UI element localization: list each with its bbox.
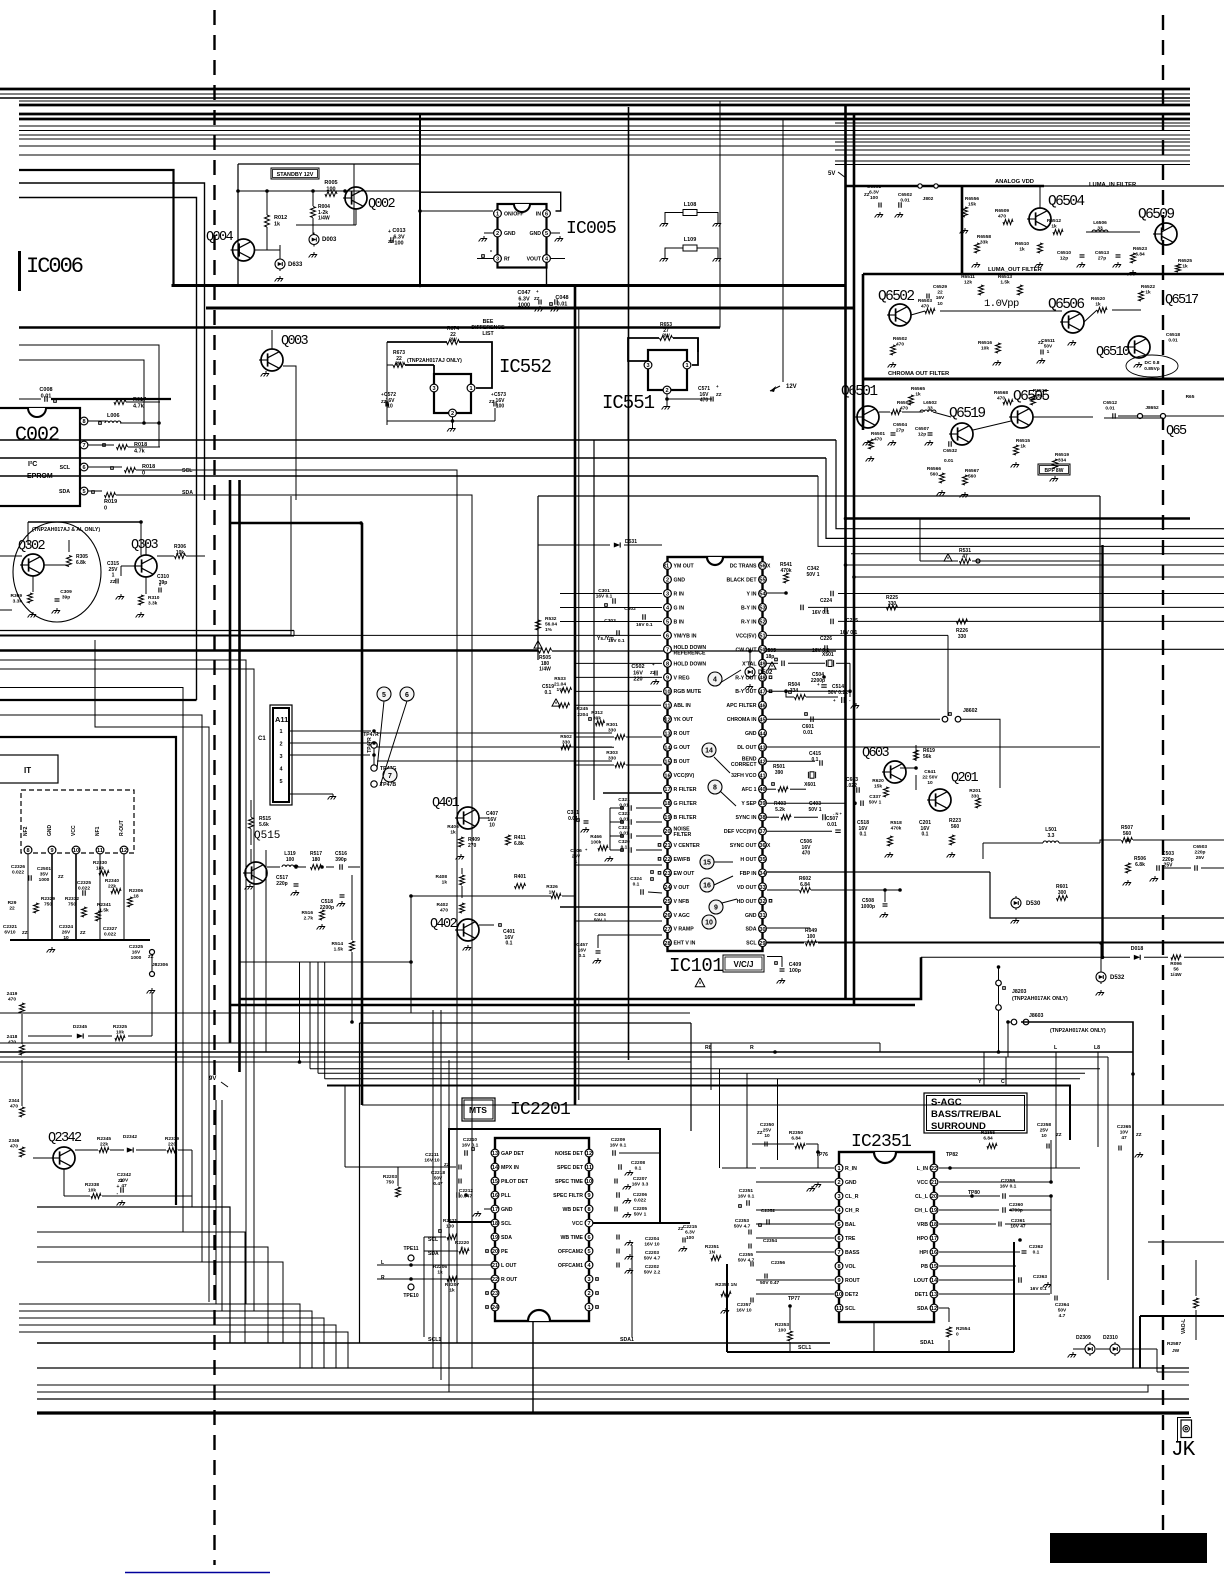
svg-text:470: 470 xyxy=(874,437,882,443)
svg-text:8: 8 xyxy=(82,419,85,425)
svg-text:1N: 1N xyxy=(709,1250,716,1256)
svg-text:6.3V: 6.3V xyxy=(685,1230,696,1236)
svg-text:C2324: C2324 xyxy=(59,924,73,930)
svg-text:25V: 25V xyxy=(763,1128,772,1134)
svg-text:14: 14 xyxy=(705,748,713,755)
svg-text:D2342: D2342 xyxy=(123,1134,137,1140)
svg-text:R6512: R6512 xyxy=(1047,218,1061,224)
svg-text:R2340: R2340 xyxy=(105,878,119,884)
svg-text:R6565: R6565 xyxy=(911,386,925,392)
svg-text:46: 46 xyxy=(759,703,765,709)
svg-text:DC TRANS: DC TRANS xyxy=(730,564,757,570)
svg-text:12V: 12V xyxy=(786,384,797,390)
svg-text:36: 36 xyxy=(759,843,765,849)
svg-text:HPI: HPI xyxy=(919,1250,928,1256)
svg-text:1000: 1000 xyxy=(131,955,142,961)
svg-text:(TNP2AH017AK ONLY): (TNP2AH017AK ONLY) xyxy=(1012,996,1068,1002)
svg-text:11: 11 xyxy=(836,1306,842,1312)
svg-text:R_IN: R_IN xyxy=(845,1166,857,1172)
svg-text:1: 1 xyxy=(666,564,669,570)
svg-text:54: 54 xyxy=(759,592,766,598)
svg-text:Q6504: Q6504 xyxy=(1048,194,1084,210)
svg-text:2: 2 xyxy=(279,742,282,748)
svg-text:20: 20 xyxy=(492,1249,498,1255)
svg-text:24: 24 xyxy=(664,885,671,891)
svg-text:39p: 39p xyxy=(62,595,70,601)
svg-text:TP80: TP80 xyxy=(968,1190,980,1196)
svg-text:R312: R312 xyxy=(591,710,603,716)
svg-text:ZZ: ZZ xyxy=(58,874,64,879)
svg-text:Q402: Q402 xyxy=(430,917,458,932)
svg-text:R FILTER: R FILTER xyxy=(674,787,697,793)
svg-text:470: 470 xyxy=(440,908,448,914)
svg-text:6: 6 xyxy=(587,1235,590,1241)
svg-text:Y: Y xyxy=(978,1079,982,1085)
svg-text:16V 0.1: 16V 0.1 xyxy=(462,1143,479,1149)
svg-text:DC 0.8: DC 0.8 xyxy=(1145,360,1160,366)
svg-text:16V: 16V xyxy=(132,950,141,956)
svg-text:2: 2 xyxy=(451,411,454,417)
svg-text:20: 20 xyxy=(931,1194,937,1200)
svg-text:470k: 470k xyxy=(891,826,902,832)
svg-text:Q515: Q515 xyxy=(254,830,280,842)
svg-text:R OUT: R OUT xyxy=(501,1277,518,1283)
svg-text:R2339: R2339 xyxy=(165,1136,179,1142)
svg-text:0.1: 0.1 xyxy=(579,953,586,959)
svg-text:+: + xyxy=(652,662,655,667)
svg-text:330: 330 xyxy=(608,756,616,762)
svg-text:390p: 390p xyxy=(335,857,346,863)
svg-text:6V10: 6V10 xyxy=(4,930,16,936)
svg-text:GND: GND xyxy=(47,825,53,837)
svg-text:6.3V: 6.3V xyxy=(518,296,530,302)
svg-text:750: 750 xyxy=(68,902,76,908)
svg-text:2: 2 xyxy=(587,1291,590,1297)
svg-text:1000: 1000 xyxy=(518,303,530,309)
svg-text:JW: JW xyxy=(1172,1348,1180,1354)
svg-text:1k: 1k xyxy=(1095,302,1101,308)
svg-text:APC FILTER: APC FILTER xyxy=(726,703,756,709)
svg-text:560: 560 xyxy=(930,472,938,478)
svg-text:PE: PE xyxy=(501,1249,508,1255)
svg-text:G FILTER: G FILTER xyxy=(674,801,697,807)
svg-text:22: 22 xyxy=(664,857,670,863)
svg-text:17: 17 xyxy=(931,1236,937,1242)
svg-text:Q65: Q65 xyxy=(1166,424,1187,439)
svg-text:16V 0.1: 16V 0.1 xyxy=(596,594,613,600)
svg-text:CL_R: CL_R xyxy=(845,1194,859,1200)
svg-text:C2209: C2209 xyxy=(611,1137,625,1143)
svg-text:L6506: L6506 xyxy=(1093,220,1107,226)
svg-text:100: 100 xyxy=(446,1224,454,1230)
svg-text:D2310: D2310 xyxy=(1103,1335,1118,1341)
svg-text:0.1: 0.1 xyxy=(860,832,867,838)
svg-text:6: 6 xyxy=(82,465,85,471)
svg-text:6: 6 xyxy=(545,212,548,218)
svg-text:+: + xyxy=(117,1184,120,1190)
svg-text:6: 6 xyxy=(405,692,409,699)
svg-text:1k: 1k xyxy=(274,221,281,227)
svg-text:R326: R326 xyxy=(546,884,558,890)
svg-text:B-Y OUT: B-Y OUT xyxy=(735,689,757,695)
svg-text:C2210: C2210 xyxy=(463,1137,477,1143)
svg-text:BPF 8W: BPF 8W xyxy=(1045,468,1064,474)
svg-text:100: 100 xyxy=(394,241,403,247)
svg-text:41: 41 xyxy=(759,773,765,779)
svg-text:22: 22 xyxy=(931,1166,937,1172)
svg-text:50V 4.7: 50V 4.7 xyxy=(644,1256,661,1262)
svg-text:SURROUND: SURROUND xyxy=(931,1121,986,1132)
svg-text:1k: 1k xyxy=(1182,264,1188,270)
svg-text:4.7k: 4.7k xyxy=(134,448,146,454)
svg-text:20: 20 xyxy=(664,829,670,835)
svg-text:R6567: R6567 xyxy=(965,468,979,474)
svg-text:0.022: 0.022 xyxy=(104,932,116,938)
svg-text:4.7k: 4.7k xyxy=(133,403,145,409)
svg-text:V/C/J: V/C/J xyxy=(733,960,753,969)
svg-text:0: 0 xyxy=(104,505,107,511)
svg-text:ON/OFF: ON/OFF xyxy=(504,212,524,218)
svg-text:WB TIME: WB TIME xyxy=(561,1235,584,1241)
svg-text:27p: 27p xyxy=(896,428,904,434)
svg-text:R310: R310 xyxy=(148,595,160,601)
svg-text:SCL1: SCL1 xyxy=(428,1337,441,1343)
svg-text:1.0Vpp: 1.0Vpp xyxy=(984,298,1019,310)
svg-text:5: 5 xyxy=(587,1249,590,1255)
svg-text:VCC: VCC xyxy=(917,1180,928,1186)
svg-text:56: 56 xyxy=(1173,967,1179,973)
svg-text:B-Y IN: B-Y IN xyxy=(741,605,757,611)
svg-text:25V: 25V xyxy=(1196,855,1205,861)
svg-text:0.47: 0.47 xyxy=(433,1181,443,1187)
svg-text:5: 5 xyxy=(382,692,386,699)
svg-text:4: 4 xyxy=(713,677,717,684)
svg-text:8: 8 xyxy=(666,661,669,667)
svg-text:TRE: TRE xyxy=(845,1236,856,1242)
svg-text:R2207: R2207 xyxy=(445,1282,459,1288)
svg-text:Q6509: Q6509 xyxy=(1138,207,1174,223)
svg-text:C2205: C2205 xyxy=(633,1206,647,1212)
svg-text:1%: 1% xyxy=(557,687,565,693)
svg-text:2: 2 xyxy=(666,578,669,584)
svg-text:2: 2 xyxy=(665,388,668,394)
svg-text:14: 14 xyxy=(664,745,671,751)
svg-text:R533: R533 xyxy=(554,676,566,682)
svg-text:2418: 2418 xyxy=(7,1034,18,1040)
svg-text:50V: 50V xyxy=(1058,1308,1067,1314)
svg-text:C224: C224 xyxy=(820,598,832,604)
svg-text:12k: 12k xyxy=(964,280,972,286)
svg-text:470: 470 xyxy=(10,1144,18,1150)
svg-text:CL_L: CL_L xyxy=(915,1194,929,1200)
svg-text:C457: C457 xyxy=(576,942,588,948)
svg-text:3.3k: 3.3k xyxy=(13,599,23,605)
svg-text:C6529: C6529 xyxy=(933,284,947,290)
svg-text:R2345: R2345 xyxy=(97,1136,111,1142)
svg-text:18: 18 xyxy=(133,894,139,900)
svg-text:16V 3.3: 16V 3.3 xyxy=(632,1182,649,1188)
svg-text:49: 49 xyxy=(759,661,765,667)
svg-text:7: 7 xyxy=(388,773,392,780)
svg-text:0.022: 0.022 xyxy=(634,1198,646,1204)
svg-text:8: 8 xyxy=(837,1264,840,1270)
svg-text:BASS/TRE/BAL: BASS/TRE/BAL xyxy=(931,1109,1001,1120)
svg-text:2: 2 xyxy=(496,231,499,237)
svg-text:Rf: Rf xyxy=(504,257,510,263)
svg-text:48: 48 xyxy=(759,675,765,681)
svg-text:10: 10 xyxy=(586,1179,592,1185)
svg-text:8: 8 xyxy=(587,1207,590,1213)
svg-text:C406: C406 xyxy=(570,848,582,854)
svg-text:10k: 10k xyxy=(176,550,185,556)
svg-text:R OUT: R OUT xyxy=(674,731,691,737)
svg-text:X501: X501 xyxy=(822,652,834,658)
svg-text:1k: 1k xyxy=(442,880,448,886)
svg-text:0.01: 0.01 xyxy=(803,730,813,736)
svg-text:470: 470 xyxy=(998,214,1006,220)
svg-text:C2321: C2321 xyxy=(3,924,17,930)
svg-text:C008: C008 xyxy=(39,387,52,393)
svg-text:R-OUT: R-OUT xyxy=(119,820,125,836)
svg-text:ZZ: ZZ xyxy=(118,1178,124,1183)
svg-text:270: 270 xyxy=(468,843,477,849)
svg-text:39: 39 xyxy=(759,801,765,807)
svg-text:R406: R406 xyxy=(447,824,459,830)
svg-text:10: 10 xyxy=(664,689,670,695)
svg-text:R2341: R2341 xyxy=(97,902,111,908)
svg-text:1k: 1k xyxy=(1051,224,1057,230)
svg-text:43: 43 xyxy=(759,745,765,751)
svg-text:10: 10 xyxy=(63,935,69,941)
svg-text:11: 11 xyxy=(97,848,103,854)
svg-text:R6515: R6515 xyxy=(1016,438,1030,444)
svg-text:2204: 2204 xyxy=(577,712,588,718)
svg-text:44: 44 xyxy=(759,731,766,737)
svg-text:10V: 10V xyxy=(1120,1130,1129,1136)
svg-text:R6511: R6511 xyxy=(961,274,975,280)
svg-text:C2352: C2352 xyxy=(761,1208,775,1214)
svg-text:50V 0.47: 50V 0.47 xyxy=(760,1280,780,1286)
svg-text:1000: 1000 xyxy=(39,877,50,883)
svg-text:1.5k: 1.5k xyxy=(99,908,109,914)
svg-text:CH_L: CH_L xyxy=(914,1208,928,1214)
svg-text:R309: R309 xyxy=(11,593,23,599)
svg-text:R402: R402 xyxy=(437,902,449,908)
svg-text:D532: D532 xyxy=(1110,975,1125,981)
svg-text:C324: C324 xyxy=(630,876,642,882)
svg-text:(TNP2AH017AJ & AL ONLY): (TNP2AH017AJ & AL ONLY) xyxy=(32,527,100,533)
svg-text:0.1: 0.1 xyxy=(633,882,640,888)
svg-text:10: 10 xyxy=(1041,1133,1047,1139)
svg-text:16V 0.1: 16V 0.1 xyxy=(812,610,829,616)
svg-text:BASS: BASS xyxy=(845,1250,860,1256)
svg-text:8: 8 xyxy=(26,848,29,854)
svg-text:16V 0.1: 16V 0.1 xyxy=(636,622,653,628)
svg-text:R2330: R2330 xyxy=(93,860,107,866)
svg-text:L006: L006 xyxy=(107,413,120,419)
svg-text:37: 37 xyxy=(759,829,765,835)
svg-text:R6520: R6520 xyxy=(1091,296,1105,302)
svg-text:IC005: IC005 xyxy=(566,219,616,239)
svg-text:C2350: C2350 xyxy=(760,1122,774,1128)
svg-text:L108: L108 xyxy=(684,202,697,208)
svg-text:C2325: C2325 xyxy=(129,944,143,950)
svg-text:0.85Vp: 0.85Vp xyxy=(1144,366,1160,372)
svg-text:C2358: C2358 xyxy=(1037,1122,1051,1128)
svg-text:3: 3 xyxy=(666,592,669,598)
svg-text:50V 1: 50V 1 xyxy=(806,572,819,578)
svg-text:Q6502: Q6502 xyxy=(878,289,914,305)
svg-text:C6507: C6507 xyxy=(915,426,929,432)
svg-text:SDA: SDA xyxy=(428,1251,439,1257)
svg-text:ZZ: ZZ xyxy=(757,1130,763,1135)
svg-text:JK: JK xyxy=(1171,1439,1196,1462)
svg-text:6.8k: 6.8k xyxy=(1135,862,1145,868)
svg-text:31: 31 xyxy=(759,913,765,919)
svg-text:0: 0 xyxy=(142,470,145,476)
svg-text:R6568: R6568 xyxy=(994,390,1008,396)
svg-text:Q6510: Q6510 xyxy=(1096,345,1130,360)
svg-text:FILTER: FILTER xyxy=(674,832,692,838)
svg-text:PB: PB xyxy=(921,1264,928,1270)
svg-text:SPEC DET: SPEC DET xyxy=(557,1165,584,1171)
svg-text:39k: 39k xyxy=(593,716,601,722)
svg-text:51: 51 xyxy=(759,634,765,640)
svg-text:0.01: 0.01 xyxy=(557,301,568,307)
svg-text:J82306: J82306 xyxy=(152,962,168,968)
svg-text:NOISE DET: NOISE DET xyxy=(555,1151,584,1157)
svg-text:1: 1 xyxy=(685,363,688,369)
svg-text:16V: 16V xyxy=(936,295,945,301)
svg-text:C2363: C2363 xyxy=(1033,1274,1047,1280)
svg-text:R IN: R IN xyxy=(674,591,685,597)
svg-text:MTS: MTS xyxy=(469,1105,487,1115)
svg-text:RGB MUTE: RGB MUTE xyxy=(674,689,702,695)
svg-text:22k: 22k xyxy=(108,884,116,890)
svg-text:16V 0.1: 16V 0.1 xyxy=(608,638,625,644)
svg-text:R516: R516 xyxy=(302,910,314,916)
svg-text:R: R xyxy=(750,1045,754,1051)
svg-text:8: 8 xyxy=(713,785,717,792)
svg-text:C2204: C2204 xyxy=(645,1236,659,1242)
svg-text:AFC 1: AFC 1 xyxy=(742,787,757,793)
svg-text:R65: R65 xyxy=(1186,394,1195,400)
svg-text:R6558: R6558 xyxy=(977,234,991,240)
svg-text:CHROMA IN: CHROMA IN xyxy=(727,717,757,723)
svg-text:16: 16 xyxy=(931,1250,937,1256)
svg-text:C2327: C2327 xyxy=(103,926,117,932)
svg-text:220p: 220p xyxy=(276,881,287,887)
svg-text:18p: 18p xyxy=(766,654,775,660)
svg-text:0.1: 0.1 xyxy=(922,832,929,838)
svg-text:14: 14 xyxy=(931,1278,938,1284)
svg-text:C2354: C2354 xyxy=(763,1238,777,1244)
svg-text:GND: GND xyxy=(501,1207,513,1213)
svg-text:CH_R: CH_R xyxy=(845,1208,859,1214)
svg-text:50V: 50V xyxy=(434,1176,443,1182)
svg-text:3W: 3W xyxy=(662,334,670,340)
svg-text:100: 100 xyxy=(686,1235,694,1241)
svg-text:Q6517: Q6517 xyxy=(1165,293,1199,308)
svg-text:50V: 50V xyxy=(1044,344,1053,350)
svg-text:16V: 16V xyxy=(633,670,643,676)
svg-text:GND: GND xyxy=(745,731,757,737)
svg-text:10: 10 xyxy=(927,780,933,786)
svg-text:0.01: 0.01 xyxy=(1105,406,1115,412)
svg-text:3W: 3W xyxy=(449,338,457,344)
svg-text:R2350: R2350 xyxy=(789,1130,803,1136)
svg-text:560: 560 xyxy=(951,824,960,830)
svg-text:+: + xyxy=(388,229,391,235)
svg-text:G OUT: G OUT xyxy=(674,745,691,751)
svg-text:470: 470 xyxy=(896,342,904,348)
svg-text:C6504: C6504 xyxy=(893,422,907,428)
svg-text:C047: C047 xyxy=(517,290,530,296)
svg-text:R2306: R2306 xyxy=(129,888,143,894)
svg-text:MPX IN: MPX IN xyxy=(501,1165,519,1171)
svg-text:0.01: 0.01 xyxy=(41,393,52,399)
svg-text:J8652: J8652 xyxy=(1145,405,1159,411)
svg-text:ZZ: ZZ xyxy=(1038,340,1044,345)
svg-text:C2207: C2207 xyxy=(633,1176,647,1182)
svg-text:R408: R408 xyxy=(436,874,448,880)
svg-text:PLL: PLL xyxy=(501,1193,512,1199)
svg-text:22: 22 xyxy=(937,290,943,296)
svg-text:0.022: 0.022 xyxy=(78,886,90,892)
svg-text:18: 18 xyxy=(664,801,670,807)
svg-text:C2356: C2356 xyxy=(771,1260,785,1266)
svg-text:IC552: IC552 xyxy=(499,356,552,378)
svg-text:47: 47 xyxy=(962,554,968,560)
svg-text:Q003: Q003 xyxy=(281,334,309,349)
svg-text:16V 10: 16V 10 xyxy=(644,1242,660,1248)
svg-text:R518: R518 xyxy=(890,820,902,826)
svg-text:50V 1: 50V 1 xyxy=(634,1212,647,1218)
svg-text:22: 22 xyxy=(492,1277,498,1283)
svg-text:D633: D633 xyxy=(288,262,303,268)
svg-text:15k: 15k xyxy=(968,202,976,208)
svg-text:+: + xyxy=(536,289,539,294)
svg-text:3: 3 xyxy=(587,1277,590,1283)
svg-text:D2345: D2345 xyxy=(73,1024,87,1030)
svg-text:OFFCAM1: OFFCAM1 xyxy=(558,1263,583,1269)
svg-text:BLACK DET: BLACK DET xyxy=(727,577,758,583)
svg-text:SCL: SCL xyxy=(428,1237,438,1243)
svg-text:HPO: HPO xyxy=(917,1236,928,1242)
svg-text:10: 10 xyxy=(836,1292,842,1298)
svg-text:C6518: C6518 xyxy=(1166,332,1180,338)
svg-text:GND: GND xyxy=(674,577,686,583)
svg-text:R018: R018 xyxy=(142,464,155,470)
svg-text:50V 2.2: 50V 2.2 xyxy=(644,1270,661,1276)
svg-text:C2203: C2203 xyxy=(645,1250,659,1256)
svg-text:R019: R019 xyxy=(104,499,117,505)
svg-text:750: 750 xyxy=(44,902,52,908)
svg-text:R6501: R6501 xyxy=(871,431,885,437)
svg-text:21: 21 xyxy=(931,1180,937,1186)
svg-text:18k: 18k xyxy=(96,866,104,872)
svg-text:6.84: 6.84 xyxy=(983,1136,993,1142)
svg-text:IN: IN xyxy=(536,212,541,218)
svg-text:SDA: SDA xyxy=(917,1306,928,1312)
svg-text:SCL: SCL xyxy=(182,468,193,474)
svg-text:J8602: J8602 xyxy=(963,708,978,714)
svg-text:R6519: R6519 xyxy=(1055,452,1069,458)
svg-text:50V 4.7: 50V 4.7 xyxy=(734,1224,751,1230)
svg-text:7: 7 xyxy=(837,1250,840,1256)
svg-text:1: 1 xyxy=(1047,349,1050,355)
svg-text:IC2351: IC2351 xyxy=(851,1132,911,1152)
